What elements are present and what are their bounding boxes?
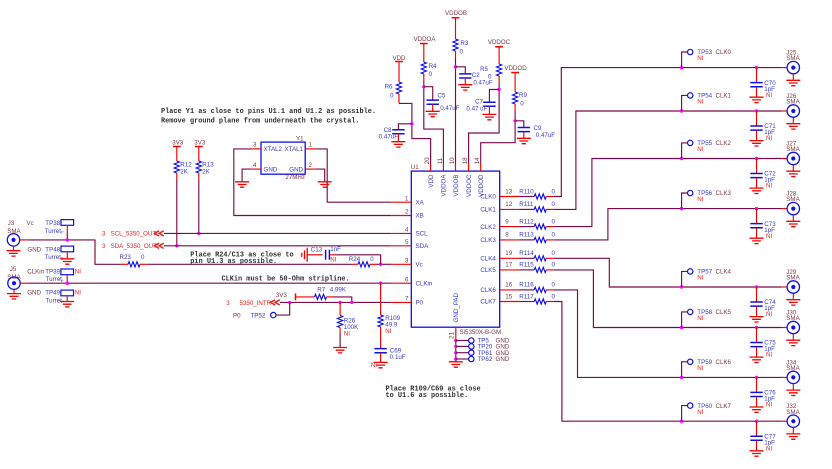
- wire VDDOA to U1 pin 11: [424, 81, 444, 164]
- capacitor C76: [750, 392, 762, 396]
- capacitor C5 branch wire: [424, 87, 433, 100]
- node GND_PAD junction TP61: [454, 351, 457, 354]
- svg-text:3: 3: [405, 258, 409, 265]
- SMA connector J32: [787, 415, 799, 427]
- node CLK0 cap junction: [755, 66, 758, 69]
- capacitor C13 left lead: [307, 254, 322, 256]
- capacitor C77 top lead: [756, 421, 758, 436]
- ground under J32: [786, 434, 800, 439]
- svg-text:VDDOC: VDDOC: [466, 174, 473, 197]
- testpoint TP57 circle: [688, 269, 693, 274]
- capacitor C8 branch wire: [398, 124, 412, 130]
- resistor R6 bottom lead: [398, 94, 400, 103]
- ground under C76: [750, 407, 764, 412]
- svg-text:SMA: SMA: [786, 55, 800, 62]
- node Vc pin junction: [379, 263, 382, 266]
- wire Vc net from J3: [28, 240, 121, 264]
- svg-text:SDA: SDA: [416, 243, 430, 250]
- ground under C69: [374, 362, 388, 367]
- svg-text:0: 0: [460, 48, 464, 55]
- svg-text:Si5350X-B-GM: Si5350X-B-GM: [460, 329, 502, 336]
- testpoint TP55 circle: [688, 140, 693, 145]
- svg-text:0: 0: [552, 232, 556, 239]
- resistor R109 top lead: [380, 283, 382, 315]
- svg-text:GND: GND: [27, 247, 41, 254]
- node CLK3 testpoint junction: [680, 207, 683, 210]
- resistor R117 right lead: [546, 301, 554, 303]
- capacitor C77 bottom lead: [756, 441, 758, 451]
- svg-text:0: 0: [552, 188, 556, 195]
- Y1 pin 1 stub: [305, 148, 315, 150]
- ground under J5: [7, 294, 21, 299]
- wire C13 to Vc node: [335, 255, 381, 264]
- testpoint TP60 stem: [682, 406, 688, 422]
- testpoint TP53 stem: [682, 52, 688, 68]
- resistor R7: [315, 294, 327, 299]
- U1 pin 1 XA stub: [391, 201, 411, 203]
- svg-text:NI: NI: [766, 183, 772, 190]
- node VDD/C8 junction: [410, 122, 413, 125]
- wire CLK6 pin to resistor R116: [520, 289, 535, 291]
- svg-text:0.1uF: 0.1uF: [390, 354, 406, 361]
- svg-text:NI: NI: [697, 99, 703, 106]
- U1 pin 18 VDDOC stub: [468, 164, 470, 172]
- SMA connector J26: [787, 105, 799, 117]
- svg-text:NI: NI: [330, 257, 336, 264]
- svg-text:NI: NI: [75, 268, 81, 275]
- svg-text:NI: NI: [697, 196, 703, 203]
- capacitor C73 bottom lead: [756, 228, 758, 238]
- wire CLK0 pin to resistor R110: [520, 196, 535, 198]
- svg-text:CLK0: CLK0: [716, 49, 732, 56]
- SMA connector J5 ground stem: [13, 289, 15, 293]
- capacitor C73 top lead: [756, 209, 758, 224]
- ground at C13 (rotated): [302, 248, 307, 262]
- svg-text:GND: GND: [496, 356, 510, 363]
- testpoint TP20 circle: [469, 344, 474, 349]
- turret TP39 value subscript mark: [61, 280, 64, 281]
- resistor R5 bottom lead: [498, 76, 500, 83]
- svg-text:Place Y1 as close to pins U1.1: Place Y1 as close to pins U1.1 and U1.2 …: [161, 108, 376, 116]
- testpoint TP59 stem: [682, 362, 688, 378]
- svg-text:R4: R4: [429, 63, 437, 70]
- svg-text:VDDOC: VDDOC: [488, 39, 511, 46]
- offpage connector SDA: [155, 243, 164, 248]
- capacitor C9: [518, 128, 530, 132]
- svg-text:NI: NI: [371, 362, 377, 369]
- capacitor C5 bottom lead: [432, 104, 434, 111]
- svg-text:0: 0: [552, 282, 556, 289]
- U1 pin 20 VDD stub: [430, 164, 432, 172]
- resistor R23 right lead: [140, 263, 148, 265]
- testpoint TP58 stem: [682, 312, 688, 328]
- turret TP38: [61, 220, 74, 226]
- ground under C71: [750, 141, 764, 146]
- wire GND_PAD net: [455, 334, 457, 341]
- U1 pin 16 CLK6 stub: [500, 289, 520, 291]
- testpoint TP58 circle: [688, 309, 693, 314]
- resistor R115 right lead: [546, 269, 554, 271]
- resistor R6: [396, 82, 401, 94]
- capacitor C72 top lead: [756, 159, 758, 174]
- resistor R117: [534, 299, 546, 304]
- svg-text:2: 2: [309, 162, 313, 169]
- svg-text:0: 0: [552, 293, 556, 300]
- testpoint TP20 stem: [456, 345, 469, 347]
- capacitor C72: [750, 174, 762, 178]
- turret TP49: [61, 290, 74, 296]
- svg-text:SDA_5350_OUT: SDA_5350_OUT: [111, 243, 158, 250]
- svg-text:1: 1: [309, 142, 313, 149]
- turret TP49 value subscript mark: [61, 301, 64, 302]
- svg-text:NI: NI: [697, 55, 703, 62]
- node GND_PAD junction TP5: [454, 339, 457, 342]
- SMA connector J34: [787, 371, 799, 383]
- SMA connector J28 ground stem: [792, 215, 794, 221]
- node CLK2 cap junction: [755, 157, 758, 160]
- svg-text:0.47uF: 0.47uF: [536, 132, 555, 139]
- svg-text:J3: J3: [8, 220, 15, 227]
- svg-text:NI: NI: [697, 315, 703, 322]
- resistor R26 bottom lead: [339, 328, 341, 335]
- svg-text:R9: R9: [519, 92, 527, 99]
- testpoint TP52 stem: [276, 302, 290, 315]
- U1 pin 11 VDDOA stub: [442, 164, 444, 172]
- svg-text:16: 16: [505, 282, 512, 289]
- svg-text:NI: NI: [766, 402, 772, 409]
- svg-text:NI: NI: [385, 328, 391, 335]
- resistor R9 top lead: [514, 73, 516, 93]
- svg-text:NI: NI: [697, 365, 703, 372]
- SMA connector J27 stub: [781, 158, 787, 160]
- svg-text:C7: C7: [475, 98, 483, 105]
- SMA connector J26 ground stem: [792, 117, 794, 123]
- wire CLK4 net route to output row: [554, 258, 682, 287]
- SMA connector J25: [787, 61, 799, 73]
- wire Y1 pin 2 to ground: [315, 169, 325, 182]
- svg-text:R116: R116: [519, 282, 534, 289]
- ground under C72: [750, 188, 764, 193]
- testpoint TP62 circle: [469, 356, 474, 361]
- testpoint TP55 stem: [682, 143, 688, 159]
- svg-text:VDDOA: VDDOA: [441, 174, 448, 197]
- svg-text:R13: R13: [202, 162, 214, 169]
- capacitor C7 bottom lead: [488, 106, 490, 114]
- wire SDA net: [164, 245, 391, 247]
- capacitor C2 bottom lead: [464, 78, 466, 85]
- svg-text:CLK2: CLK2: [480, 224, 496, 231]
- svg-text:SMA: SMA: [786, 196, 800, 203]
- resistor R12 bottom lead: [176, 173, 178, 180]
- SMA connector J34 stub: [781, 376, 787, 378]
- node CLK7 cap junction: [755, 420, 758, 423]
- node CLK6 testpoint junction: [680, 376, 683, 379]
- turret TP39: [61, 269, 74, 275]
- wire CLK4 pin to resistor R114: [520, 257, 535, 259]
- svg-text:CLK6: CLK6: [480, 287, 496, 294]
- svg-text:CLK5: CLK5: [716, 309, 732, 316]
- turret TP48 value subscript mark: [61, 258, 64, 259]
- testpoint TP53 circle: [688, 49, 693, 54]
- ground GND_PAD: [449, 362, 463, 367]
- wire CLK7 output row: [682, 420, 781, 422]
- wire CLK2 output row: [682, 158, 781, 160]
- svg-text:0.47uF: 0.47uF: [440, 105, 459, 112]
- SMA connector J5 output stub: [20, 282, 28, 284]
- svg-text:GND: GND: [264, 166, 278, 173]
- svg-text:SMA: SMA: [786, 365, 800, 372]
- resistor R112: [534, 224, 546, 229]
- svg-text:8: 8: [505, 232, 509, 239]
- svg-text:0: 0: [552, 201, 556, 208]
- U1 pin 2 XB stub: [391, 215, 411, 217]
- wire VDDOB to U1 pin 10: [455, 58, 457, 164]
- svg-text:17: 17: [505, 262, 512, 269]
- capacitor C9 bottom lead: [523, 132, 525, 139]
- SMA connector J30: [787, 321, 799, 333]
- resistor R109 bottom lead: [380, 327, 382, 348]
- svg-text:NI: NI: [766, 352, 772, 359]
- testpoint TP59 circle: [688, 359, 693, 364]
- svg-text:CLK5: CLK5: [480, 267, 496, 274]
- ground under Y1 pin 2: [318, 182, 332, 187]
- svg-text:0: 0: [141, 254, 145, 261]
- wire CLK1 net route to output row: [554, 111, 682, 209]
- svg-text:21: 21: [449, 332, 456, 339]
- svg-text:CLKin: CLKin: [416, 280, 433, 287]
- turret TP38 stem: [66, 225, 68, 232]
- ground under C2: [458, 85, 472, 90]
- resistor R113 right lead: [546, 239, 554, 241]
- svg-text:VDDOA: VDDOA: [413, 36, 436, 43]
- wire CLK5 pin to resistor R115: [520, 269, 535, 271]
- resistor R7 left lead: [296, 296, 315, 298]
- svg-text:GND: GND: [27, 290, 41, 297]
- svg-text:NI: NI: [766, 445, 772, 452]
- testpoint TP54 circle: [688, 93, 693, 98]
- SMA connector J5: [8, 277, 20, 289]
- resistor R116: [534, 287, 546, 292]
- svg-text:4.99K: 4.99K: [330, 286, 347, 293]
- svg-text:NI: NI: [766, 233, 772, 240]
- node CLK5 testpoint junction: [680, 326, 683, 329]
- svg-text:XA: XA: [416, 199, 425, 206]
- capacitor C9 branch wire: [515, 121, 524, 127]
- wire CLK1 output row: [682, 110, 781, 112]
- svg-text:7: 7: [405, 296, 409, 303]
- capacitor C71: [750, 126, 762, 130]
- wire P0 net: [280, 301, 391, 303]
- turret TP49 stem: [66, 296, 68, 302]
- SMA connector J32 ground stem: [792, 427, 794, 433]
- resistor R13 bottom lead: [198, 173, 200, 180]
- SMA connector J28 stub: [781, 208, 787, 210]
- offpage connector SCL: [155, 231, 164, 236]
- svg-text:0: 0: [370, 256, 374, 263]
- svg-text:3: 3: [226, 300, 230, 307]
- svg-text:C13: C13: [311, 247, 323, 254]
- svg-text:XTAL2: XTAL2: [264, 146, 283, 153]
- SMA connector J3 output stub: [20, 239, 28, 241]
- ground under C5: [426, 111, 440, 116]
- node GND_PAD junction TP20: [454, 345, 457, 348]
- wire VDD to U1 pin 20: [399, 103, 431, 163]
- resistor R111: [534, 207, 546, 212]
- U1 pin 19 CLK4 stub: [500, 257, 520, 259]
- capacitor C5: [427, 100, 439, 104]
- svg-text:SMA: SMA: [786, 409, 800, 416]
- testpoint TP56 circle: [688, 190, 693, 195]
- SMA connector J25 stub: [781, 67, 787, 69]
- wire CLK6 output row: [682, 376, 781, 378]
- svg-text:1nF: 1nF: [330, 246, 341, 253]
- svg-text:TP52: TP52: [251, 312, 266, 319]
- wire VDDOD to U1 pin 14: [481, 111, 515, 164]
- node GND_PAD junction TP62: [454, 357, 457, 360]
- resistor R4: [421, 62, 426, 74]
- U1 pin 4 SCL stub: [391, 232, 411, 234]
- svg-text:CLK6: CLK6: [716, 359, 732, 366]
- testpoint TP54 stem: [682, 95, 688, 111]
- svg-text:NI: NI: [766, 92, 772, 99]
- svg-text:3V3: 3V3: [172, 140, 184, 147]
- svg-text:13: 13: [505, 188, 512, 195]
- ground under C70: [750, 97, 764, 102]
- testpoint TP5 stem: [456, 340, 469, 342]
- svg-text:R5: R5: [480, 66, 488, 73]
- node CLK4 testpoint junction: [680, 285, 683, 288]
- resistor R23: [128, 262, 140, 267]
- node VDDOB/C2 junction: [454, 65, 457, 68]
- svg-text:R113: R113: [519, 232, 534, 239]
- svg-text:TP62: TP62: [478, 356, 493, 363]
- svg-text:1: 1: [405, 195, 409, 202]
- capacitor C75: [750, 343, 762, 347]
- resistor R24: [358, 262, 370, 267]
- capacitor C71 top lead: [756, 111, 758, 126]
- svg-text:R110: R110: [519, 188, 534, 195]
- SMA connector J25 ground stem: [792, 74, 794, 80]
- wire CLK3 net route to output row: [554, 209, 682, 240]
- testpoint TP60 circle: [688, 403, 693, 408]
- svg-text:0: 0: [552, 250, 556, 257]
- svg-text:15: 15: [505, 293, 512, 300]
- svg-text:R115: R115: [519, 262, 534, 269]
- wire R24 to Vc pin: [377, 263, 391, 265]
- capacitor C74 bottom lead: [756, 306, 758, 316]
- U1 pin 12 CLK1 stub: [500, 208, 520, 210]
- svg-text:J5: J5: [10, 266, 17, 273]
- resistor R3 bottom lead: [455, 51, 457, 58]
- svg-text:NI: NI: [766, 135, 772, 142]
- offpage connector 5350_INTR: [271, 300, 280, 305]
- ground under C9: [517, 138, 531, 143]
- svg-text:CLK2: CLK2: [716, 140, 732, 147]
- resistor R26 top lead: [339, 302, 341, 315]
- svg-text:NI: NI: [697, 146, 703, 153]
- svg-text:P0: P0: [233, 312, 241, 319]
- U1 pin 9 CLK2 stub: [500, 226, 520, 228]
- svg-text:5: 5: [405, 239, 409, 246]
- svg-text:0: 0: [520, 100, 524, 107]
- resistor R26: [338, 316, 343, 328]
- svg-text:NI: NI: [697, 275, 703, 282]
- node CLK1 testpoint junction: [680, 109, 683, 112]
- svg-text:R12: R12: [180, 162, 192, 169]
- node CLK5 cap junction: [755, 326, 758, 329]
- capacitor C71 bottom lead: [756, 130, 758, 140]
- U1 pin 10 VDDOB stub: [455, 164, 457, 172]
- capacitor C77: [750, 436, 762, 440]
- SMA connector J34 ground stem: [792, 384, 794, 390]
- svg-text:CLK0: CLK0: [480, 194, 496, 201]
- resistor R4 top lead: [423, 44, 425, 63]
- resistor R109: [378, 315, 383, 327]
- resistor R9 bottom lead: [514, 104, 516, 111]
- wire CLK5 output row: [682, 327, 781, 329]
- Y1 pin 4 stub: [251, 168, 261, 170]
- node CLK4 cap junction: [755, 285, 758, 288]
- svg-text:Remove ground plane from under: Remove ground plane from underneath the …: [161, 118, 359, 126]
- ground under J25: [786, 80, 800, 85]
- capacitor C69: [374, 349, 386, 353]
- ground under Y1 pin 4: [235, 182, 249, 187]
- capacitor C72 bottom lead: [756, 178, 758, 188]
- U1 pin 17 CLK5 stub: [500, 269, 520, 271]
- SMA connector J27: [787, 152, 799, 164]
- node CLK0 testpoint junction: [680, 66, 683, 69]
- resistor R13 top lead: [198, 147, 200, 162]
- svg-text:2K: 2K: [202, 169, 210, 176]
- wire CLK3 output row: [682, 208, 781, 210]
- svg-text:Turret: Turret: [46, 276, 63, 283]
- U1 pin 3 Vc stub: [391, 263, 411, 265]
- node CLK7 testpoint junction: [680, 420, 683, 423]
- resistor R23 left lead: [121, 263, 128, 265]
- capacitor C13: [326, 250, 330, 260]
- svg-text:XB: XB: [416, 213, 424, 220]
- U1 pin 6 CLKin stub: [391, 282, 411, 284]
- svg-text:R114: R114: [519, 250, 534, 257]
- ground under C77: [750, 451, 764, 456]
- svg-text:NI: NI: [344, 330, 350, 337]
- wire R7 to P0 net: [334, 297, 352, 303]
- resistor R114: [534, 256, 546, 261]
- svg-text:CLK7: CLK7: [480, 299, 496, 306]
- wire Y1 pin 1 to U1 XA: [315, 149, 391, 202]
- resistor R5: [497, 64, 502, 76]
- svg-text:CLK7: CLK7: [716, 403, 732, 410]
- svg-text:3: 3: [102, 231, 106, 238]
- ground under J28: [786, 221, 800, 226]
- Y1 pin 2 stub: [305, 168, 315, 170]
- U1 pin 7 P0 stub: [391, 301, 411, 303]
- svg-text:SCL_5350_OUT: SCL_5350_OUT: [111, 231, 157, 238]
- svg-text:NI: NI: [75, 290, 81, 297]
- SMA connector J27 ground stem: [792, 165, 794, 171]
- wire CLK2 pin to resistor R112: [520, 226, 535, 228]
- svg-text:2K: 2K: [180, 169, 188, 176]
- wire CLK7 net route to output row: [554, 302, 682, 422]
- node VDDOA/C5 junction: [422, 85, 425, 88]
- svg-text:19: 19: [505, 250, 512, 257]
- node TP39 junction: [66, 282, 69, 285]
- wire CLK3 pin to resistor R113: [520, 239, 535, 241]
- svg-text:Turret: Turret: [45, 254, 62, 261]
- svg-text:TP39: TP39: [45, 268, 60, 275]
- svg-text:GND_PAD: GND_PAD: [453, 293, 460, 323]
- svg-text:3: 3: [102, 243, 106, 250]
